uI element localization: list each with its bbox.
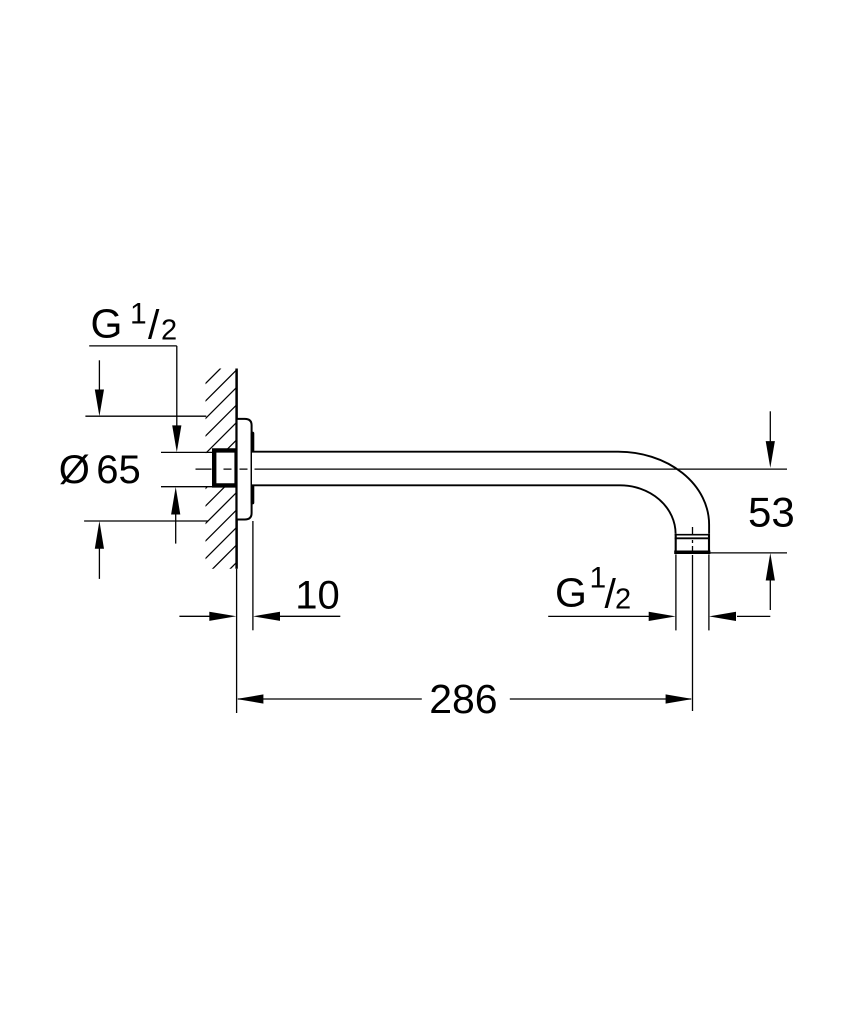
dim 53 xyxy=(769,411,771,443)
svg-text:/: / xyxy=(148,302,160,348)
svg-text:53: 53 xyxy=(748,489,795,536)
svg-text:2: 2 xyxy=(615,583,631,615)
svg-text:10: 10 xyxy=(295,573,340,617)
svg-text:65: 65 xyxy=(96,448,141,492)
wall face line xyxy=(235,369,238,569)
dim G12 bottom xyxy=(548,615,650,617)
svg-text:2: 2 xyxy=(161,315,177,347)
flange (escutcheon) xyxy=(237,419,252,520)
nipple diameter up arrow xyxy=(175,512,177,544)
svg-text:G: G xyxy=(91,301,123,347)
centerline horizontal xyxy=(196,468,788,470)
pipe body fill xyxy=(252,452,709,553)
wall hatching xyxy=(204,351,238,595)
centerline vertical xyxy=(692,527,694,711)
svg-text:Ø: Ø xyxy=(59,448,90,492)
dim 10 xyxy=(179,615,210,617)
svg-text:G: G xyxy=(555,570,587,616)
svg-text:286: 286 xyxy=(429,676,497,722)
threaded nipple behind wall xyxy=(214,450,236,485)
G 1/2 top-left leader xyxy=(89,346,177,428)
dim 286 xyxy=(238,698,422,700)
pipe top outline xyxy=(252,452,709,534)
svg-text:1: 1 xyxy=(130,297,147,330)
dia65 arrows xyxy=(98,360,100,392)
extension lines xyxy=(84,416,787,713)
flange rim thick edge xyxy=(251,433,255,502)
pipe hole through wall (masks hatching) xyxy=(203,453,237,486)
outlet collar xyxy=(675,534,710,554)
pipe bottom outline xyxy=(252,485,676,534)
